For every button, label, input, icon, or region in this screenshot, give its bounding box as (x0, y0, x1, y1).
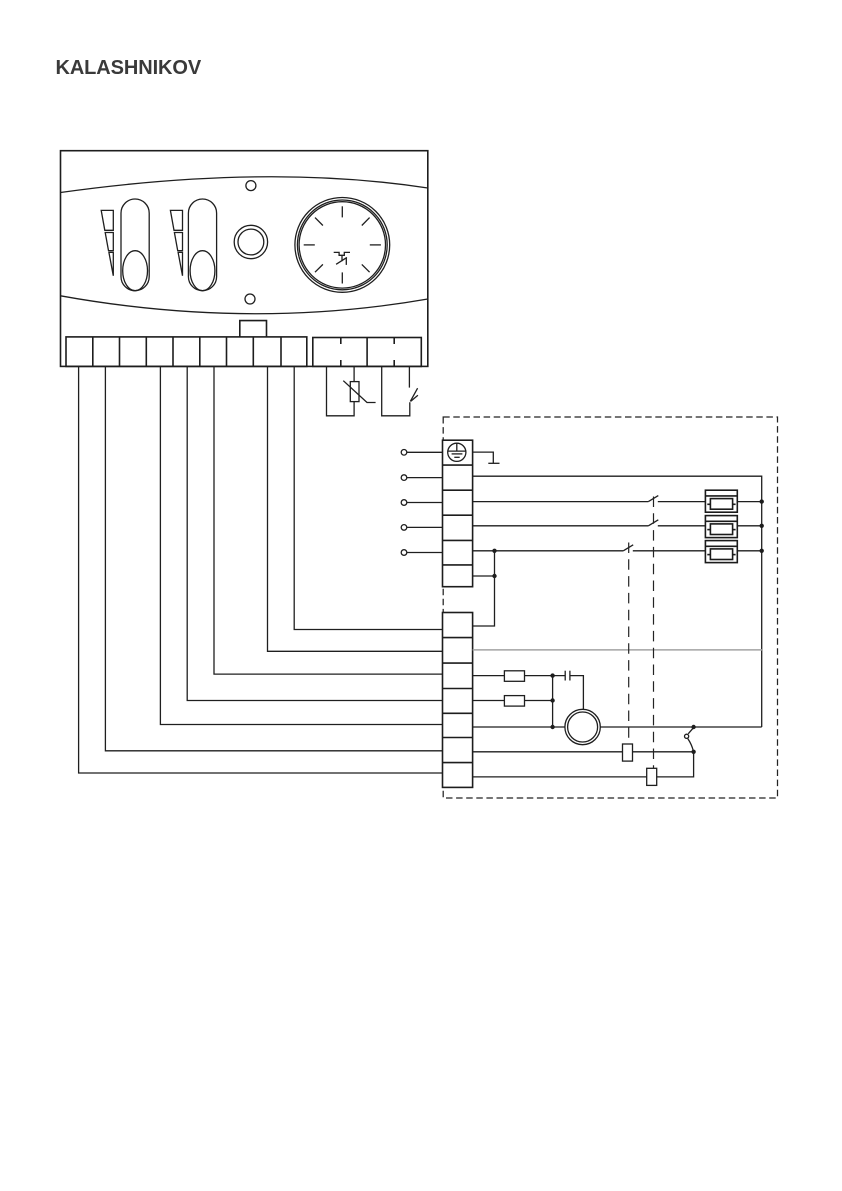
junction on bus row 5 (760, 549, 764, 553)
dial tick marks (304, 206, 381, 283)
slider 2 knob (190, 251, 215, 291)
slider 2 indicator wedge (170, 210, 182, 275)
terminal strip right section (313, 338, 422, 367)
junction motor row (550, 725, 554, 729)
junction row 5 left (492, 549, 496, 553)
terminal block lower group (443, 613, 473, 788)
control panel outline (61, 151, 428, 367)
slider 1 track (121, 199, 149, 291)
sensor loop wires (327, 366, 355, 415)
wire from terminal 6 to block row 3 (214, 366, 443, 674)
wire from terminal 5 to block row 4 (187, 366, 442, 700)
heating element 2 (705, 516, 737, 538)
PE earth terminal symbol (448, 443, 466, 461)
resistor R2 (504, 696, 524, 707)
wire from terminal 2 to block row 6 (105, 366, 442, 750)
lower row 7 wire (473, 752, 694, 777)
junction lower row 6 (691, 750, 695, 754)
link wire rows 5/6 down to lower block (473, 551, 495, 626)
junction motor row right (691, 725, 695, 729)
panel upper curve (61, 177, 428, 193)
wire from terminal 8 to block row 2 (268, 366, 443, 651)
relay switch contact (688, 728, 693, 734)
lower row 4 wire (473, 700, 553, 702)
wire from terminal 4 to block row 5 (160, 366, 442, 724)
row 4 wire with switch (473, 525, 762, 527)
mechanical link dashed 1 (628, 543, 630, 745)
lower row 3 wire (473, 676, 584, 710)
row 5 switch blade (623, 545, 633, 551)
capacitor C1 (565, 671, 570, 681)
motor M1 (565, 709, 600, 744)
heating element 1 (705, 490, 737, 512)
junction on bus row 3 (760, 499, 764, 503)
junction lower row 4 (550, 698, 554, 702)
strip notch tab (240, 321, 267, 337)
screw top (246, 181, 256, 191)
row 2 wire to right bus (473, 476, 762, 727)
row 3 wire with switch (473, 501, 762, 503)
svg-text:KALASHNIKOV: KALASHNIKOV (56, 57, 202, 79)
actuator coil K2 (647, 768, 657, 785)
slider 1 knob (123, 251, 148, 291)
earth wire and ground symbol (473, 452, 494, 463)
row 3 switch blade (648, 496, 658, 502)
dial center icon (334, 252, 350, 265)
knob (234, 225, 267, 258)
junction on bus row 4 (760, 524, 764, 528)
lower row 6 wire (473, 751, 694, 753)
wire from terminal 9 to block row 1 (294, 366, 442, 629)
mechanical link dashed 2 (653, 497, 655, 769)
screw bottom (245, 294, 255, 304)
terminal block upper group (443, 440, 473, 587)
heating element 3 (705, 541, 737, 563)
row 6 stub wire (473, 575, 495, 577)
row 5 wire with switch (473, 550, 762, 552)
branch wire joining rows 3-5 (552, 676, 554, 727)
actuator coil K1 (623, 744, 633, 761)
thermal cutout switch blade (410, 388, 417, 401)
terminal strip left section (66, 337, 307, 367)
panel lower curve (61, 296, 428, 314)
slider 2 track (188, 199, 216, 291)
slider 1 indicator wedge (101, 210, 113, 275)
thermistor RT (350, 382, 359, 402)
dashed enclosure (443, 417, 777, 798)
wire from terminal 1 to block row 7 (79, 366, 443, 773)
row 4 switch blade (648, 520, 658, 526)
motor row wire (473, 726, 762, 728)
gray wire lower row 2 (473, 649, 762, 651)
thermostat dial (295, 198, 390, 293)
junction lower row 3 (550, 673, 554, 677)
thermal switch loop wires (382, 366, 410, 415)
connector pin circles (401, 450, 442, 556)
resistor R1 (504, 671, 524, 682)
